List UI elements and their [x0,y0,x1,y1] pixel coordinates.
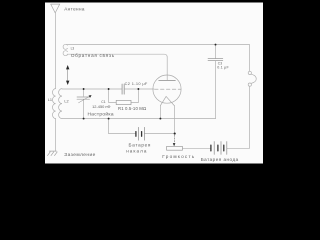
headphones earpiece arc [251,74,256,83]
coupling arrow head up [66,65,69,69]
wire L3 bottom to tube plate [67,54,167,80]
svg-text:Громкость: Громкость [162,154,195,159]
wire L3 top to right edge [67,44,250,46]
wire bottom common (grid return) [62,118,216,120]
capacitor C3 branch wires [215,45,217,119]
tube grid (dashed) [155,88,181,90]
svg-text:0.1 μF: 0.1 μF [217,65,229,69]
node bottom-battery feed [108,118,110,120]
tube filament [160,96,174,105]
wire grid line [62,88,154,90]
coupling arrow shaft (variable feedback) [67,69,69,82]
node filament right-battery [174,133,176,135]
battery BT1 filament: plates [136,127,145,140]
capacitor C1 variable arrow [79,97,90,103]
svg-text:Батарея анода: Батарея анода [201,157,239,162]
wire anode battery line [182,147,249,149]
wiper arrow head [173,143,176,146]
capacitor C1 branch wires [83,89,85,119]
potentiometer R2 body [167,146,183,150]
svg-text:Заземление: Заземление [64,152,95,158]
svg-text:Обратная связь: Обратная связь [71,53,115,58]
coil L3 (feedback coil loops) [63,44,67,49]
tube plate [159,79,176,81]
svg-text:Антенна: Антенна [64,6,85,11]
wire to ground [55,119,57,152]
svg-text:C2 1-10 μF: C2 1-10 μF [125,81,148,86]
battery BT2 anode: plates [211,142,227,155]
white schematic panel [45,3,263,164]
junction dots [66,44,216,147]
node filament left [159,118,161,120]
coil L2 [59,89,62,119]
svg-text:Батарея: Батарея [129,143,152,148]
svg-text:накала: накала [126,148,147,153]
node grid-R1 right [137,88,139,90]
capacitor C2 plates [122,84,124,94]
antenna [51,4,60,13]
headphones terminals [248,71,251,74]
wire filament right leg [174,106,176,134]
svg-text:L2: L2 [64,100,68,104]
wire antenna lead-in [54,13,56,89]
tube envelope U1 [153,75,181,103]
capacitor C3 plates [208,59,223,61]
coil L1 [53,89,56,119]
node grid-C1 [83,88,85,90]
potentiometer wiper dashed line [174,135,176,143]
wire filament left leg [159,106,161,119]
node C1 bottom [83,118,85,120]
svg-text:L1: L1 [48,98,52,102]
resistor R1 branch wires [109,89,139,103]
ground [48,151,58,156]
coupling arrow head down [66,81,69,85]
svg-text:L3: L3 [71,46,75,50]
node grid-R1 left [108,88,110,90]
svg-text:R1 0.5-10 МΩ: R1 0.5-10 МΩ [118,106,147,111]
wire filament battery line [109,119,175,134]
svg-text:Настройка: Настройка [88,111,114,118]
capacitor C1 plates [77,97,90,99]
svg-text:12-450 пФ: 12-450 пФ [92,104,110,109]
node top wire C3 [215,44,217,46]
C1 arrow head [89,95,92,98]
resistor R1 body [116,100,131,104]
wire right edge vertical [249,45,251,149]
